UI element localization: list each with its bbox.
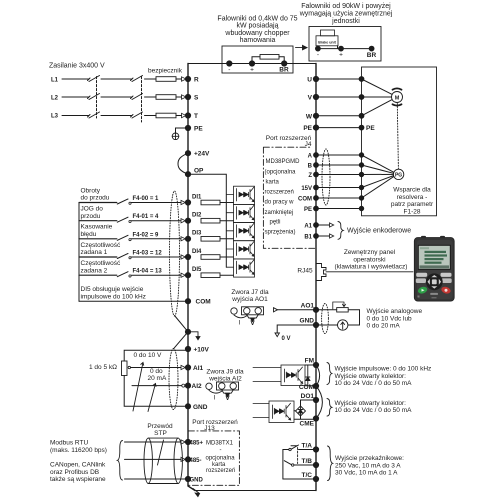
svg-text:Wyjście enkoderowe: Wyjście enkoderowe (347, 228, 411, 235)
svg-text:Zwora J7 dla: Zwora J7 dla (231, 289, 269, 296)
svg-text:AI1: AI1 (193, 365, 204, 372)
note internal chopper text (217, 15, 297, 44)
switch DI1 (117, 199, 128, 204)
svg-text:COM: COM (298, 197, 312, 203)
wire 485+ (125, 441, 182, 443)
svg-text:FM: FM (305, 358, 314, 365)
svg-text:błędu: błędu (81, 231, 97, 238)
svg-text:+10V: +10V (194, 347, 210, 354)
terminal GND AO (313, 322, 318, 327)
junction W (359, 113, 364, 118)
switch breaker pole L3 (131, 112, 143, 118)
terminal PE output (313, 125, 318, 130)
wire U to motor (362, 79, 392, 94)
svg-text:-: - (228, 67, 230, 74)
wire DI3 from common rail (79, 238, 117, 240)
svg-text:GND: GND (300, 318, 315, 325)
wire COM to machine (316, 197, 362, 199)
brace FM outputs (327, 363, 332, 385)
svg-text:rozszerzeń: rozszerzeń (265, 190, 294, 196)
wire DI2 from common rail (79, 220, 117, 222)
wire FM row (305, 364, 316, 366)
contactor mechanical link (96, 77, 98, 119)
svg-text:Zwora J9 dla: Zwora J9 dla (206, 368, 244, 375)
wire W to motor (362, 100, 392, 116)
svg-text:kW posiadają: kW posiadają (236, 23, 278, 30)
svg-text:0 V: 0 V (282, 336, 291, 342)
wire AI2 stub (132, 385, 182, 387)
svg-text:COM: COM (196, 299, 211, 306)
terminal OP (185, 172, 190, 177)
svg-text:do pracy w: do pracy w (265, 200, 295, 206)
jumper J9 (206, 382, 239, 397)
keypad function buttons (416, 273, 427, 277)
keypad bottom bar (430, 293, 438, 295)
keypad stop button red (440, 286, 451, 295)
wire loop COM CME (316, 386, 322, 419)
wire L3 (62, 115, 156, 117)
keypad LCD (418, 245, 450, 269)
relay link dashed (297, 448, 299, 464)
terminal minus (227, 61, 232, 66)
note FM output text (335, 366, 432, 388)
terminal plus (249, 61, 254, 66)
switch breaker pole L2 (131, 94, 143, 100)
svg-text:F4-01 = 4: F4-01 = 4 (133, 214, 160, 220)
svg-text:+: + (339, 52, 343, 59)
svg-text:Modbus RTU: Modbus RTU (50, 440, 88, 447)
junction V (359, 95, 364, 100)
wire DI5 from common rail (79, 274, 117, 276)
svg-text:MD38PGMD: MD38PGMD (266, 159, 301, 165)
svg-text:F4-02 = 9: F4-02 = 9 (133, 232, 160, 238)
expansion card J4 dashed box (263, 147, 315, 248)
svg-text:Wsparcie dla: Wsparcie dla (393, 187, 431, 194)
terminal B1 (314, 234, 319, 239)
wire meter to GND (316, 324, 338, 326)
external brake unit box (309, 27, 381, 62)
svg-text:Kasowanie: Kasowanie (81, 224, 113, 231)
svg-text:T/C: T/C (302, 472, 313, 479)
label block DI descriptions (81, 187, 146, 300)
wire DI2 to terminal (131, 220, 181, 222)
svg-text:L2: L2 (51, 96, 59, 102)
wire fuse to T (176, 115, 182, 117)
svg-text:10 do 24 Vdc / 0 do 50 mA: 10 do 24 Vdc / 0 do 50 mA (335, 380, 413, 387)
svg-text:I: I (214, 395, 216, 402)
svg-text:DI2: DI2 (192, 213, 202, 219)
svg-text:GND: GND (190, 478, 204, 484)
optocoupler DO1 (253, 401, 294, 423)
svg-text:PE: PE (366, 125, 375, 132)
terminal U (313, 76, 318, 81)
svg-text:wyjścia AO1: wyjścia AO1 (231, 296, 268, 303)
wire W to machine (316, 115, 362, 117)
svg-text:10 do 24 Vdc / 0 do 50 mA: 10 do 24 Vdc / 0 do 50 mA (335, 407, 413, 414)
optocoupler FM (253, 365, 305, 386)
terminal COM out (313, 383, 318, 388)
svg-text:485+: 485+ (190, 441, 204, 447)
svg-text:CANopen, CANlink: CANopen, CANlink (50, 462, 106, 469)
svg-text:A: A (308, 154, 313, 160)
svg-text:oraz Profibus DB: oraz Profibus DB (50, 469, 99, 476)
svg-text:-: - (220, 448, 222, 454)
svg-text:CME: CME (300, 421, 315, 428)
resistor DI1 (201, 200, 220, 205)
svg-text:pętli: pętli (270, 220, 281, 226)
terminal AI2 (185, 383, 190, 388)
junction Z (359, 172, 363, 176)
terminal B (314, 163, 319, 168)
terminal S (185, 94, 190, 99)
wire Z to machine (316, 174, 362, 176)
svg-text:(klawiatura i wyświetlacz): (klawiatura i wyświetlacz) (335, 264, 408, 271)
svg-text:DI4: DI4 (192, 249, 202, 255)
shield AO cable (322, 304, 329, 334)
pot wiper (128, 366, 130, 368)
expansion card J13 dashed box (188, 431, 239, 485)
wire T/C row (283, 478, 316, 480)
terminal W (313, 113, 318, 118)
wire resistor to optocoupler (220, 238, 234, 240)
brace encoder outputs (338, 222, 343, 240)
svg-text:Brake unit: Brake unit (318, 40, 336, 44)
relay contact T/A (283, 449, 289, 451)
svg-text:operatorski: operatorski (353, 256, 385, 263)
svg-text:Port rozszerzeń: Port rozszerzeń (192, 419, 238, 426)
encoder PG (393, 169, 403, 179)
wire left bus (188, 64, 195, 491)
svg-text:hamowania: hamowania (240, 37, 276, 44)
switch contactor pole L2 (88, 94, 100, 100)
svg-text:+: + (250, 67, 254, 74)
svg-text:L3: L3 (51, 114, 59, 120)
keypad operator panel (414, 236, 454, 301)
note external panel text (335, 249, 408, 271)
arrow into S (182, 95, 187, 99)
meter AO1 (338, 320, 348, 330)
diode FM clamp (306, 365, 310, 386)
svg-text:OP: OP (194, 168, 204, 175)
wire 485- (125, 458, 182, 460)
junction shield ground (185, 329, 190, 334)
svg-text:Zasilanie 3x400 V: Zasilanie 3x400 V (49, 63, 105, 70)
svg-text:PG: PG (395, 173, 402, 179)
svg-text:sprzężenia): sprzężenia) (265, 230, 296, 236)
fuse L3 (156, 113, 176, 118)
connector RJ45 jack (316, 264, 326, 281)
note relay output text (335, 455, 404, 477)
svg-text:przodu: przodu (81, 213, 101, 220)
terminal unit BR (369, 46, 374, 51)
svg-text:Falowniki od 0,4kW do 75: Falowniki od 0,4kW do 75 (217, 15, 297, 22)
arrow into DI4 (181, 255, 185, 259)
svg-text:Częstotliwość: Częstotliwość (81, 260, 121, 267)
terminal T (185, 113, 190, 118)
note MD38PGMD text (265, 159, 301, 236)
svg-text:(opcjonalna: (opcjonalna (265, 169, 297, 175)
svg-text:-: - (317, 52, 319, 59)
svg-text:250 Vac, 10 mA do 3 A: 250 Vac, 10 mA do 3 A (335, 462, 401, 469)
note fieldbus text (50, 440, 107, 484)
svg-text:Wyjście analogowe: Wyjście analogowe (367, 308, 423, 315)
arrow AO1 external (274, 308, 278, 312)
terminal PE J4 (314, 206, 319, 211)
svg-text:zamkniętej: zamkniętej (265, 210, 294, 216)
svg-text:PE: PE (194, 126, 203, 133)
svg-text:do przodu: do przodu (81, 195, 110, 202)
switch contactor pole L1 (88, 76, 100, 82)
wire DI5 to terminal (131, 274, 181, 276)
wire L1 (62, 78, 156, 80)
arrow into DI1 (181, 200, 185, 204)
brake unit block (316, 30, 338, 46)
machine enclosure box (362, 67, 437, 216)
terminal DI3 (185, 236, 190, 241)
svg-text:zadana 2: zadana 2 (81, 267, 108, 274)
wire RJ45 to panel (326, 271, 413, 273)
switch DI5 (117, 272, 128, 277)
terminal 485+ (185, 439, 190, 444)
wire resistor to optocoupler (220, 220, 234, 222)
arrow 0V (275, 333, 279, 337)
wire V to machine (316, 96, 362, 98)
wire A to machine (316, 154, 362, 156)
label F4 codes (133, 196, 163, 275)
svg-text:A1: A1 (304, 224, 312, 230)
wire plus to resistor (252, 57, 260, 64)
terminal PE input (185, 125, 190, 130)
arrow B1 (330, 234, 334, 238)
svg-text:L1: L1 (51, 78, 59, 84)
switch breaker pole L1 (131, 76, 143, 82)
arrow into 485- (181, 457, 185, 461)
wire pot bottom to GND (124, 376, 188, 407)
svg-text:U: U (307, 77, 312, 84)
note resolver text (391, 187, 434, 216)
wire jumper +24V to OP (178, 153, 188, 174)
switch DI4 (117, 254, 128, 259)
braking resistor box (222, 46, 293, 73)
terminal R (185, 76, 190, 81)
wire 15V to PG (362, 176, 394, 188)
earth symbol (172, 133, 179, 140)
svg-text:DI1: DI1 (192, 194, 202, 200)
optocoupler DI1 (226, 186, 254, 204)
svg-text:jednostki: jednostki (331, 18, 360, 25)
svg-text:karta: karta (212, 462, 226, 468)
brace DO1 outputs (327, 399, 332, 417)
svg-text:resolvera -: resolvera - (397, 194, 428, 201)
svg-text:B: B (308, 164, 313, 170)
svg-text:T: T (194, 113, 198, 120)
terminal A1 (314, 223, 319, 228)
adjustable arrow over load (333, 302, 346, 309)
wire A to PG (362, 155, 394, 172)
svg-text:patrz parametr: patrz parametr (391, 201, 434, 208)
wire load loop (348, 310, 360, 325)
svg-text:T/B: T/B (302, 458, 313, 465)
wire fuse to S (176, 96, 182, 98)
resistor DI2 (201, 218, 220, 223)
wire B to machine (316, 164, 362, 166)
svg-text:Zewnętrzny panel: Zewnętrzny panel (344, 249, 396, 256)
svg-text:485-: 485- (190, 458, 202, 464)
svg-text:0 do 10 V: 0 do 10 V (134, 352, 162, 359)
ground arrow shield (188, 332, 198, 337)
svg-text:karta: karta (266, 179, 280, 185)
arrow into T (182, 113, 187, 117)
resistor DI4 (201, 255, 220, 260)
svg-text:zadana 1: zadana 1 (81, 249, 108, 256)
svg-text:także są wspierane: także są wspierane (50, 476, 106, 483)
svg-text:M: M (395, 95, 400, 101)
note DO1 output text (335, 400, 413, 414)
svg-text:wymagają użycia zewnętrznej: wymagają użycia zewnętrznej (299, 11, 393, 18)
wire DI3 to terminal (131, 238, 181, 240)
arrow into DI2 (181, 219, 185, 223)
svg-text:impulsowe do 100 kHz: impulsowe do 100 kHz (81, 293, 146, 300)
wire U to machine (316, 78, 362, 80)
contact circle AI2 (182, 384, 185, 387)
optocoupler DI4 (226, 241, 254, 259)
junction 15V (359, 185, 363, 189)
terminal T/A (313, 447, 318, 452)
wire COM row (305, 385, 316, 387)
wire resistor to BR (279, 57, 284, 64)
optocoupler DI2 (226, 204, 254, 222)
STP cable tube (144, 438, 182, 483)
terminal +10V (185, 346, 190, 351)
wire top link to braking terminals (188, 63, 316, 65)
terminal AO1 (313, 307, 318, 312)
terminal GND analog (185, 404, 190, 409)
svg-text:15V: 15V (301, 186, 312, 192)
svg-text:R: R (194, 77, 199, 84)
terminal DI5 (185, 273, 190, 278)
wire A1 out (316, 224, 330, 226)
svg-text:DI5: DI5 (192, 267, 202, 273)
svg-text:DI5 obsługuje wejście: DI5 obsługuje wejście (81, 286, 144, 293)
svg-text:F4-03 = 12: F4-03 = 12 (133, 251, 163, 257)
svg-text:Częstotliwość: Częstotliwość (81, 242, 121, 249)
svg-text:+24V: +24V (194, 151, 210, 158)
wire bottom ground return (195, 490, 316, 492)
terminal DI4 (185, 254, 190, 259)
svg-text:DO1: DO1 (301, 393, 315, 400)
svg-text:rozszerzeń: rozszerzeń (206, 468, 235, 474)
wire fuse to R (176, 78, 182, 80)
relay common rail (282, 450, 284, 480)
svg-text:AO1: AO1 (301, 302, 315, 309)
svg-text:RJ45: RJ45 (297, 268, 313, 275)
wire B to PG (362, 165, 394, 173)
wire DI4 to terminal (131, 256, 181, 258)
svg-text:1 do 5 kΩ: 1 do 5 kΩ (89, 364, 117, 371)
brace fieldbus (117, 441, 122, 481)
svg-text:F1-28: F1-28 (404, 208, 421, 215)
svg-text:V: V (250, 320, 255, 327)
svg-text:V: V (308, 95, 313, 102)
note MD38TX1 text (206, 441, 236, 475)
wire PE to earth (176, 128, 189, 133)
arrow into 485+ (181, 440, 185, 444)
junction A (359, 153, 363, 157)
svg-text:PE: PE (303, 125, 312, 132)
resistor DI5 (201, 273, 220, 278)
svg-text:B1: B1 (304, 235, 312, 241)
option arrow current (148, 384, 156, 412)
svg-text:Przewód: Przewód (147, 423, 173, 430)
svg-text:0 do 10 Vdc lub: 0 do 10 Vdc lub (367, 315, 413, 322)
relay contact T/B (294, 464, 316, 466)
load resistor AO1 (337, 308, 349, 312)
potentiometer body (122, 361, 128, 376)
wire B1 out (316, 235, 330, 237)
svg-text:F4-04 = 13: F4-04 = 13 (133, 269, 163, 275)
svg-text:30 Vdc, 10 mA do 1 A: 30 Vdc, 10 mA do 1 A (335, 470, 398, 477)
wire AO1 to load (316, 309, 337, 311)
junction COM (359, 196, 363, 200)
braking resistor R-brake (260, 55, 279, 60)
motor M (392, 88, 403, 105)
wire GND comm (125, 478, 189, 480)
wire PE to machine (316, 127, 362, 129)
svg-text:AI2: AI2 (192, 383, 203, 390)
wire common left rail (78, 203, 80, 302)
terminal AI1 (185, 365, 190, 370)
arrow A1 (330, 223, 334, 227)
svg-text:wbudowany chopper: wbudowany chopper (224, 30, 290, 37)
keypad dpad (426, 273, 443, 290)
junction PE J4 (359, 206, 363, 210)
switch DI2 (117, 217, 128, 222)
wire DI4 from common rail (79, 256, 117, 258)
junction PE (359, 125, 364, 130)
svg-text:20 mA: 20 mA (148, 375, 167, 382)
terminal 15V (314, 185, 319, 190)
svg-text:JOG do: JOG do (81, 206, 104, 213)
svg-text:V: V (225, 395, 230, 402)
svg-text:STP: STP (154, 430, 167, 437)
svg-text:W: W (306, 113, 313, 120)
wire resistor to optocoupler (220, 274, 234, 276)
option arrow voltage (133, 363, 144, 412)
wire Z to PG (362, 173, 394, 175)
terminal DO1 (313, 397, 318, 402)
terminal BR (282, 61, 287, 66)
resistor DI3 (201, 237, 220, 242)
wire PE J4 to machine (316, 208, 362, 210)
svg-text:MD38TX1: MD38TX1 (206, 441, 234, 447)
terminal A (314, 153, 319, 158)
terminal DI1 (185, 200, 190, 205)
shield encoder cable (322, 149, 330, 205)
ground arrow bottom-left corner (193, 489, 200, 497)
arrow into R (182, 77, 187, 81)
diode bridge DO1 (296, 406, 306, 417)
svg-text:Wyjście przekaźnikowe:: Wyjście przekaźnikowe: (335, 455, 404, 462)
junction B (359, 163, 363, 167)
shield AI cable (169, 349, 178, 410)
svg-text:opcjonalna: opcjonalna (206, 456, 236, 462)
terminal CME (313, 416, 318, 421)
wire COM to PG (362, 177, 394, 198)
wire loop FM COM (316, 365, 320, 386)
terminal 485- (185, 457, 190, 462)
svg-text:I: I (239, 319, 241, 326)
svg-text:0 do 20 mA: 0 do 20 mA (367, 323, 401, 330)
